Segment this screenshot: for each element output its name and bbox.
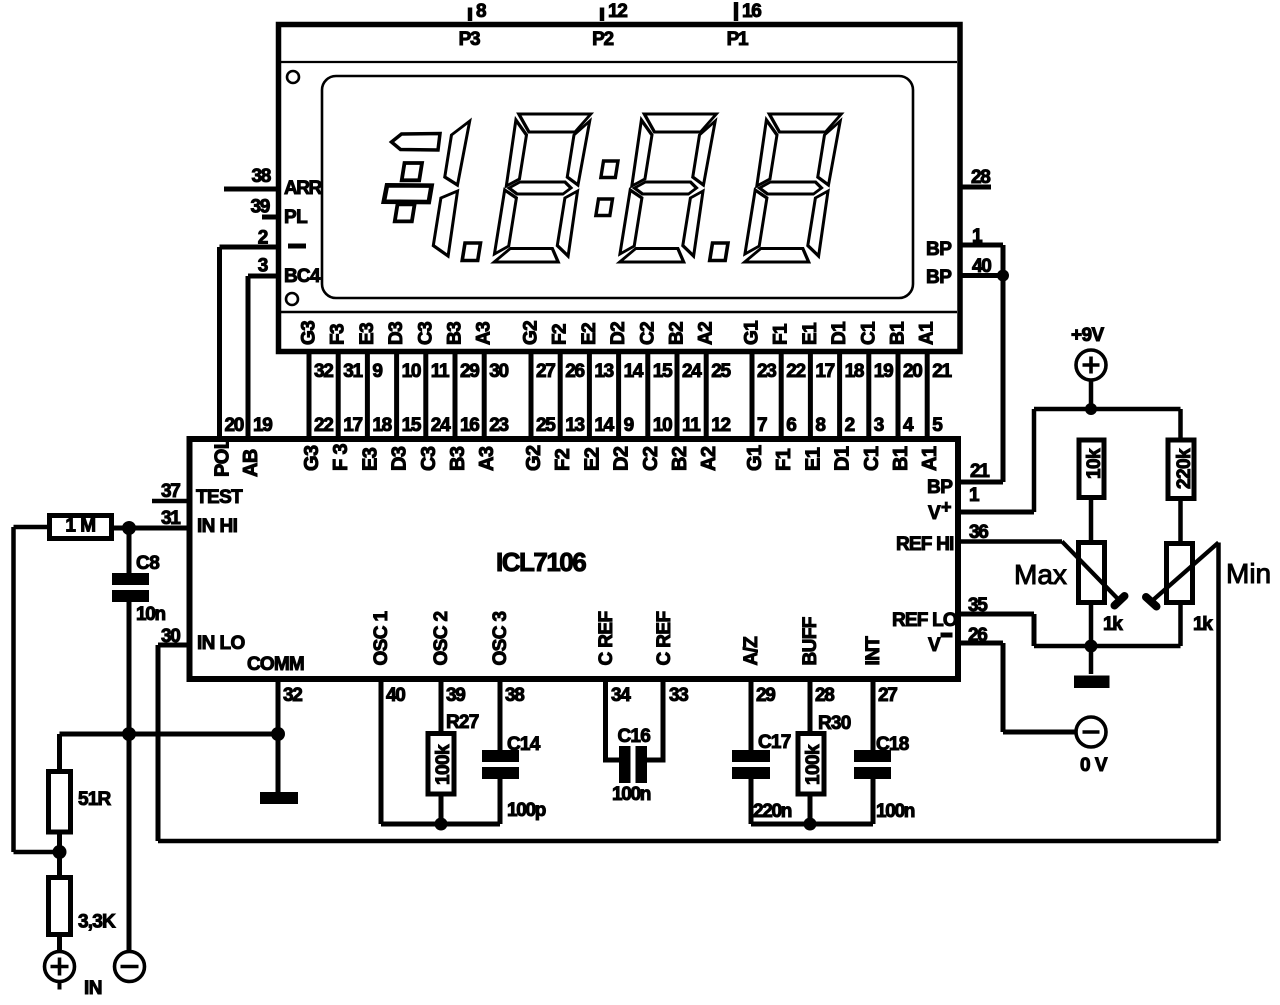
svg-text:C16: C16 <box>618 726 651 747</box>
svg-text:30: 30 <box>161 626 180 647</box>
svg-text:10: 10 <box>653 415 672 436</box>
svg-text:A2: A2 <box>696 322 717 345</box>
svg-text:ICL7106: ICL7106 <box>496 547 586 577</box>
svg-text:24: 24 <box>682 361 702 382</box>
svg-text:100k: 100k <box>803 744 824 785</box>
svg-text:REF HI: REF HI <box>896 534 954 555</box>
svg-text:100p: 100p <box>507 800 546 821</box>
svg-text:G1: G1 <box>742 320 763 345</box>
svg-text:28: 28 <box>815 685 834 706</box>
svg-text:IN HI: IN HI <box>197 516 238 537</box>
svg-text:F 3: F 3 <box>330 443 352 471</box>
svg-text:C2: C2 <box>640 446 662 471</box>
svg-text:2: 2 <box>258 228 268 249</box>
svg-text:29: 29 <box>756 685 775 706</box>
svg-text:40: 40 <box>386 685 405 706</box>
svg-text:51R: 51R <box>78 789 112 810</box>
svg-text:21: 21 <box>970 461 990 482</box>
svg-text:E1: E1 <box>802 447 824 471</box>
svg-text:C1: C1 <box>858 321 879 345</box>
svg-text:R27: R27 <box>446 712 479 733</box>
svg-text:28: 28 <box>971 167 990 188</box>
svg-text:13: 13 <box>594 361 613 382</box>
svg-text:39: 39 <box>250 197 269 218</box>
svg-text:34: 34 <box>611 685 631 706</box>
svg-text:C8: C8 <box>136 553 159 574</box>
svg-text:8: 8 <box>815 415 825 436</box>
svg-text:INT: INT <box>863 636 884 666</box>
svg-text:39: 39 <box>446 685 465 706</box>
svg-text:E3: E3 <box>359 447 381 471</box>
svg-text:0 V: 0 V <box>1080 755 1108 776</box>
svg-text:E3: E3 <box>357 323 378 345</box>
svg-text:F3: F3 <box>328 324 349 345</box>
svg-text:15: 15 <box>653 361 673 382</box>
svg-text:E2: E2 <box>581 447 603 471</box>
svg-text:38: 38 <box>251 166 270 187</box>
svg-text:A2: A2 <box>698 446 720 471</box>
svg-text:1k: 1k <box>1193 614 1213 635</box>
svg-text:20: 20 <box>225 415 244 436</box>
svg-text:13: 13 <box>565 415 584 436</box>
svg-text:15: 15 <box>402 415 422 436</box>
svg-text:D3: D3 <box>389 446 411 471</box>
svg-text:A3: A3 <box>476 446 498 471</box>
svg-text:3: 3 <box>874 415 884 436</box>
svg-text:BUFF: BUFF <box>800 617 821 665</box>
svg-text:V: V <box>928 635 941 656</box>
svg-text:P2: P2 <box>592 29 613 50</box>
svg-text:7: 7 <box>757 415 767 436</box>
svg-text:1 M: 1 M <box>65 516 95 537</box>
svg-text:D2: D2 <box>608 322 629 345</box>
svg-text:220k: 220k <box>1174 448 1195 489</box>
svg-text:C REF: C REF <box>654 611 675 665</box>
svg-text:D1: D1 <box>829 321 850 345</box>
svg-text:9: 9 <box>624 415 634 436</box>
svg-text:14: 14 <box>594 415 614 436</box>
svg-text:G2: G2 <box>521 321 542 345</box>
svg-text:10: 10 <box>402 361 421 382</box>
svg-text:OSC 2: OSC 2 <box>431 611 452 665</box>
svg-text:AB: AB <box>240 449 262 477</box>
svg-text:D2: D2 <box>611 446 633 471</box>
svg-text:B3: B3 <box>447 446 469 471</box>
svg-text:D1: D1 <box>832 446 854 471</box>
svg-text:B3: B3 <box>445 322 466 345</box>
svg-text:IN LO: IN LO <box>197 633 245 654</box>
svg-text:9: 9 <box>372 361 382 382</box>
svg-text:100k: 100k <box>433 744 454 785</box>
svg-text:35: 35 <box>968 595 988 616</box>
svg-text:B1: B1 <box>890 446 912 471</box>
svg-text:38: 38 <box>505 685 524 706</box>
svg-text:17: 17 <box>343 415 362 436</box>
svg-text:A1: A1 <box>919 446 941 471</box>
svg-text:3: 3 <box>258 256 268 277</box>
svg-text:OSC 3: OSC 3 <box>490 611 511 665</box>
svg-text:+: + <box>941 497 951 517</box>
svg-text:2: 2 <box>845 415 855 436</box>
svg-text:4: 4 <box>903 415 914 436</box>
svg-text:E1: E1 <box>800 322 821 345</box>
svg-text:30: 30 <box>489 361 508 382</box>
svg-text:27: 27 <box>878 685 897 706</box>
svg-text:C18: C18 <box>876 734 909 755</box>
svg-text:POL: POL <box>212 437 234 477</box>
svg-text:C3: C3 <box>415 322 436 345</box>
svg-text:G2: G2 <box>523 445 545 471</box>
svg-text:PL: PL <box>284 207 308 228</box>
svg-text:E2: E2 <box>579 323 600 345</box>
svg-text:31: 31 <box>161 508 181 529</box>
svg-text:22: 22 <box>314 415 333 436</box>
svg-text:18: 18 <box>372 415 391 436</box>
svg-text:19: 19 <box>874 361 893 382</box>
svg-text:20: 20 <box>903 361 922 382</box>
svg-text:ARR: ARR <box>284 178 322 199</box>
svg-text:A3: A3 <box>474 322 495 345</box>
svg-text:G1: G1 <box>744 445 766 471</box>
svg-text:F2: F2 <box>550 324 571 345</box>
svg-text:IN: IN <box>84 978 102 999</box>
svg-text:6: 6 <box>786 415 796 436</box>
svg-text:G3: G3 <box>301 445 323 471</box>
svg-text:F1: F1 <box>773 448 795 471</box>
svg-text:B1: B1 <box>888 321 909 345</box>
svg-text:+9V: +9V <box>1071 325 1104 346</box>
svg-text:11: 11 <box>431 361 450 382</box>
svg-text:32: 32 <box>314 361 333 382</box>
svg-text:8: 8 <box>476 1 486 22</box>
svg-text:R30: R30 <box>818 713 851 734</box>
svg-text:26: 26 <box>968 625 987 646</box>
svg-text:C1: C1 <box>861 446 883 471</box>
svg-text:C17: C17 <box>758 732 791 753</box>
svg-text:16: 16 <box>460 415 479 436</box>
svg-text:26: 26 <box>565 361 584 382</box>
svg-text:12: 12 <box>608 1 627 22</box>
svg-text:P3: P3 <box>459 29 480 50</box>
svg-text:COMM: COMM <box>247 654 304 675</box>
svg-text:P1: P1 <box>727 29 749 50</box>
svg-text:100n: 100n <box>876 801 915 822</box>
svg-text:5: 5 <box>932 415 943 436</box>
svg-text:36: 36 <box>969 522 988 543</box>
svg-text:19: 19 <box>253 415 272 436</box>
svg-text:OSC 1: OSC 1 <box>371 610 392 665</box>
svg-text:25: 25 <box>536 415 556 436</box>
svg-text:C3: C3 <box>418 446 440 471</box>
svg-text:23: 23 <box>489 415 508 436</box>
svg-text:16: 16 <box>742 1 761 22</box>
svg-text:18: 18 <box>845 361 864 382</box>
svg-text:REF LO: REF LO <box>892 610 957 631</box>
svg-text:10n: 10n <box>136 604 166 625</box>
svg-text:37: 37 <box>161 481 180 502</box>
svg-text:33: 33 <box>669 685 688 706</box>
svg-text:17: 17 <box>815 361 834 382</box>
svg-text:24: 24 <box>431 415 451 436</box>
svg-text:B2: B2 <box>669 446 691 471</box>
svg-text:3,3K: 3,3K <box>78 912 116 933</box>
svg-text:BP: BP <box>926 239 952 260</box>
svg-text:C2: C2 <box>637 322 658 345</box>
svg-text:14: 14 <box>624 361 644 382</box>
svg-text:40: 40 <box>972 256 991 277</box>
svg-text:220n: 220n <box>753 801 792 822</box>
svg-text:Min: Min <box>1226 558 1271 589</box>
svg-text:F1: F1 <box>771 323 792 345</box>
svg-text:F2: F2 <box>552 448 574 471</box>
svg-text:Max: Max <box>1014 559 1067 590</box>
svg-text:12: 12 <box>711 415 730 436</box>
svg-text:10k: 10k <box>1084 448 1105 479</box>
svg-text:25: 25 <box>711 361 731 382</box>
svg-text:1: 1 <box>969 485 980 506</box>
svg-text:23: 23 <box>757 361 776 382</box>
svg-text:A1: A1 <box>917 321 938 345</box>
svg-text:G3: G3 <box>299 321 320 345</box>
svg-text:C REF: C REF <box>596 611 617 665</box>
svg-text:100n: 100n <box>612 784 651 805</box>
svg-text:21: 21 <box>932 361 952 382</box>
svg-text:BC4: BC4 <box>284 266 321 287</box>
svg-text:D3: D3 <box>386 322 407 345</box>
svg-text:27: 27 <box>536 361 555 382</box>
svg-text:31: 31 <box>343 361 363 382</box>
svg-text:29: 29 <box>460 361 479 382</box>
svg-text:BP: BP <box>926 267 952 288</box>
svg-text:BP: BP <box>927 477 953 498</box>
svg-text:V: V <box>928 503 941 524</box>
svg-text:22: 22 <box>786 361 805 382</box>
svg-text:A/Z: A/Z <box>741 636 762 666</box>
svg-text:11: 11 <box>682 415 701 436</box>
svg-text:C14: C14 <box>507 734 541 755</box>
svg-text:B2: B2 <box>667 322 688 345</box>
svg-text:1k: 1k <box>1103 614 1123 635</box>
svg-text:32: 32 <box>283 685 302 706</box>
svg-text:TEST: TEST <box>196 487 243 508</box>
